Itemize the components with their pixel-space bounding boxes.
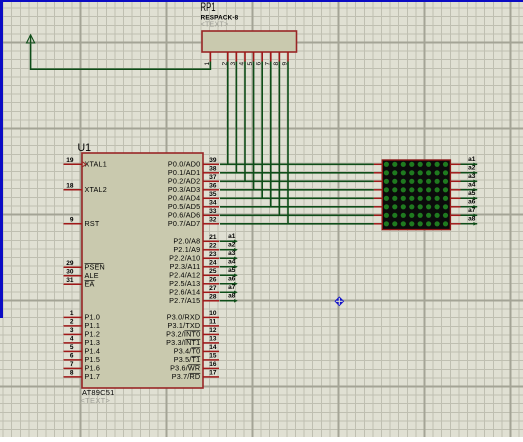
matrix right pin and terminal a1 [450, 156, 477, 166]
svg-text:a1: a1 [468, 156, 476, 163]
terminal a4 on U1 pin 24 [220, 259, 238, 269]
svg-text:4: 4 [70, 336, 74, 343]
svg-text:7: 7 [70, 361, 74, 368]
U1 pin 18 XTAL2 [64, 182, 107, 194]
matrix right pin and terminal a5 [450, 190, 477, 200]
svg-text:a3: a3 [228, 250, 236, 257]
U1 pin 39 P0.0/AD0 [168, 157, 219, 169]
svg-text:a6: a6 [228, 276, 236, 283]
svg-text:a4: a4 [228, 259, 236, 266]
U1 pin 14 P3.4/T0 [174, 344, 219, 356]
svg-text:RP1: RP1 [201, 2, 216, 14]
svg-text:11: 11 [209, 319, 216, 326]
svg-text:28: 28 [209, 293, 217, 300]
terminal a3 on U1 pin 23 [220, 250, 238, 260]
matrix left pin row 3 [374, 180, 382, 182]
U1 pin 3 P1.2 [64, 327, 101, 339]
svg-text:a2: a2 [228, 242, 236, 249]
matrix left pin row 5 [374, 197, 382, 199]
matrix left pin row 6 [374, 206, 382, 208]
svg-text:1: 1 [70, 310, 74, 317]
svg-text:38: 38 [209, 165, 217, 172]
svg-text:2: 2 [70, 319, 74, 326]
svg-text:a1: a1 [228, 233, 236, 240]
terminal a7 on U1 pin 27 [220, 284, 238, 294]
svg-text:XTAL1: XTAL1 [85, 159, 107, 168]
svg-text:29: 29 [66, 260, 74, 267]
svg-text:a8: a8 [468, 216, 476, 223]
svg-text:RST: RST [85, 219, 100, 228]
svg-text:24: 24 [209, 259, 217, 266]
svg-text:3: 3 [70, 327, 74, 334]
left window edge bar [0, 0, 3, 318]
U1 pin 31 EA [64, 277, 95, 289]
svg-text:a7: a7 [468, 207, 476, 214]
RP1 pin 8 [273, 52, 280, 66]
U1 pin 15 P3.5/T1 [174, 353, 219, 365]
matrix right pin and terminal a6 [450, 199, 477, 209]
terminal a5 on U1 pin 25 [220, 267, 238, 277]
U1 pin 16 P3.6/WR [170, 361, 219, 373]
wire RP1 pin 4 to P0.2 net [244, 62, 246, 182]
U1 pin 9 RST [64, 216, 100, 228]
U1 pin 11 P3.1/TXD [168, 319, 219, 331]
U1 pin 30 ALE [64, 268, 99, 280]
U1 pin 25 P2.4/A12 [169, 268, 219, 280]
U1 pin 24 P2.3/A11 [170, 259, 219, 271]
svg-text:27: 27 [209, 285, 217, 292]
RP1 pin 9 [282, 52, 289, 66]
matrix right pin and terminal a3 [450, 173, 477, 183]
svg-text:a5: a5 [228, 267, 236, 274]
svg-text:a7: a7 [228, 284, 236, 291]
RP1 pin 4 [239, 52, 246, 66]
MCU U1 body [82, 153, 203, 388]
U1 pin 5 P1.4 [64, 344, 101, 356]
svg-text:31: 31 [66, 277, 74, 284]
U1 pin 4 P1.3 [64, 336, 101, 348]
svg-text:14: 14 [209, 344, 217, 351]
wire P0.0 row to matrix [220, 163, 374, 165]
svg-text:26: 26 [209, 276, 217, 283]
U1 pin 23 P2.2/A10 [169, 251, 219, 263]
wire P0.1 row to matrix [220, 172, 374, 174]
wire RP1 pin 8 to P0.6 net [278, 62, 280, 216]
wire P0.5 row to matrix [220, 206, 374, 208]
matrix left pin row 8 [374, 223, 382, 225]
matrix left pin row 2 [374, 172, 382, 174]
U1 pin 2 P1.1 [64, 319, 101, 331]
U1 pin 32 P0.7/AD7 [168, 216, 219, 228]
RP1 pin 3 [230, 52, 237, 66]
RP1 pin 1 [204, 52, 211, 66]
svg-text:22: 22 [209, 242, 217, 249]
U1 pin 38 P0.1/AD1 [168, 165, 219, 177]
wire P0.3 row to matrix [220, 189, 374, 191]
svg-text:8: 8 [70, 370, 74, 377]
svg-text:35: 35 [209, 191, 217, 198]
U1 pin 13 P3.3/INT1 [166, 336, 219, 348]
svg-text:P1.7: P1.7 [85, 372, 101, 381]
matrix right pin and terminal a4 [450, 182, 477, 192]
LED dot matrix body [382, 160, 450, 230]
U1 pin 28 P2.7/A15 [169, 293, 219, 305]
wire RP1 pin 9 to P0.7 net [287, 62, 289, 224]
resistor pack RP1 body [202, 31, 297, 52]
terminal a6 on U1 pin 26 [220, 276, 238, 286]
svg-text:25: 25 [209, 268, 217, 275]
wire RP1 pin 3 to P0.1 net [235, 62, 237, 173]
U1 pin 37 P0.2/AD2 [168, 174, 219, 186]
RP1 pin 2 [221, 52, 228, 66]
svg-text:18: 18 [66, 182, 74, 189]
U1 pin 1 P1.0 [64, 310, 101, 322]
svg-text:P0.7/AD7: P0.7/AD7 [168, 219, 200, 228]
matrix left pin row 4 [374, 189, 382, 191]
svg-text:1: 1 [204, 62, 211, 66]
svg-text:a8: a8 [228, 293, 236, 300]
wire P0.6 row to matrix [220, 214, 374, 216]
RP1 pin 5 [247, 52, 254, 66]
svg-text:30: 30 [66, 268, 74, 275]
svg-text:a6: a6 [468, 199, 476, 206]
svg-text:XTAL2: XTAL2 [85, 185, 107, 194]
U1 pin 33 P0.6/AD6 [168, 208, 219, 220]
U1 pin 7 P1.6 [64, 361, 101, 373]
svg-text:U1: U1 [78, 142, 92, 154]
U1 pin 19 XTAL1 [64, 157, 107, 169]
wire P0.7 row to matrix [220, 223, 374, 225]
RP1 pin 7 [264, 52, 271, 66]
wire RP1 pin 7 to P0.5 net [270, 62, 272, 207]
wire power to RP1 pin1 [31, 44, 211, 69]
svg-text:a4: a4 [468, 182, 476, 189]
power terminal +5V arrow [27, 35, 35, 44]
top window edge bar [0, 0, 523, 2]
wire P0.4 row to matrix [220, 197, 374, 199]
matrix right pin and terminal a7 [450, 207, 477, 217]
svg-text:6: 6 [70, 353, 74, 360]
svg-text:19: 19 [66, 157, 74, 164]
svg-text:a3: a3 [468, 173, 476, 180]
LED matrix dots 8x8 [384, 162, 448, 227]
U1 pin 21 P2.0/A8 [173, 234, 219, 246]
svg-text:37: 37 [209, 174, 217, 181]
U1 pin 10 P3.0/RXD [167, 310, 219, 322]
matrix right pin and terminal a8 [450, 216, 477, 226]
wire RP1 pin 2 to P0.0 net [227, 62, 229, 165]
svg-text:P2.7/A15: P2.7/A15 [169, 296, 200, 305]
svg-text:33: 33 [209, 208, 217, 215]
RP1 pin 6 [256, 52, 263, 66]
U1 pin 22 P2.1/A9 [173, 242, 219, 254]
terminal a8 on U1 pin 28 [220, 293, 238, 303]
svg-text:a2: a2 [468, 165, 476, 172]
svg-text:RESPACK-8: RESPACK-8 [201, 15, 239, 22]
U1 pin 34 P0.5/AD5 [168, 199, 219, 211]
U1 pin 12 P3.2/INT0 [166, 327, 219, 339]
svg-text:34: 34 [209, 199, 217, 206]
svg-text:<TEXT>: <TEXT> [201, 22, 229, 29]
U1 pin 8 P1.7 [64, 370, 101, 382]
sheet origin marker [334, 296, 344, 306]
svg-text:9: 9 [70, 216, 74, 223]
svg-text:15: 15 [209, 353, 217, 360]
U1 pin 29 PSEN [64, 260, 105, 272]
svg-text:17: 17 [209, 370, 217, 377]
U1 pin 6 P1.5 [64, 353, 101, 365]
svg-text:21: 21 [209, 234, 217, 241]
U1 pin 26 P2.5/A13 [169, 276, 219, 288]
wire P0.2 row to matrix [220, 180, 374, 182]
matrix right pin and terminal a2 [450, 165, 477, 175]
svg-text:16: 16 [209, 361, 217, 368]
svg-text:32: 32 [209, 216, 217, 223]
svg-text:12: 12 [209, 327, 217, 334]
U1 pin 36 P0.3/AD3 [168, 182, 219, 194]
svg-text:13: 13 [209, 336, 217, 343]
svg-text:10: 10 [209, 310, 217, 317]
svg-text:36: 36 [209, 182, 217, 189]
svg-text:<TEXT>: <TEXT> [81, 396, 111, 405]
U1 pin 27 P2.6/A14 [169, 285, 219, 297]
svg-text:23: 23 [209, 251, 217, 258]
matrix left pin row 1 [374, 163, 382, 165]
matrix left pin row 7 [374, 214, 382, 216]
U1 pin 35 P0.4/AD4 [168, 191, 219, 203]
U1 pin 17 P3.7/RD [172, 370, 219, 382]
wire RP1 pin 6 to P0.4 net [261, 62, 263, 199]
svg-text:5: 5 [70, 344, 74, 351]
terminal a2 on U1 pin 22 [220, 242, 238, 252]
terminal a1 on U1 pin 21 [220, 233, 238, 243]
svg-text:a5: a5 [468, 190, 476, 197]
svg-text:39: 39 [209, 157, 217, 164]
wire RP1 pin 5 to P0.3 net [253, 62, 255, 190]
